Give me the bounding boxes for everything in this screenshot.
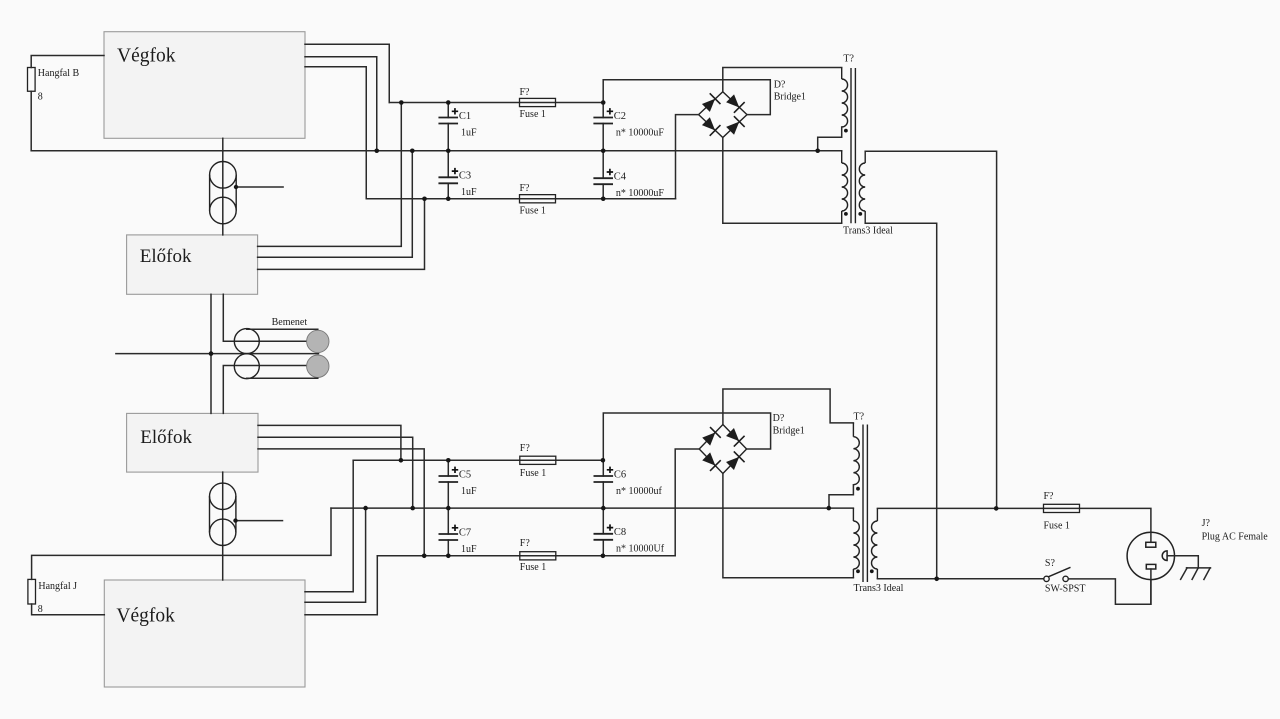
fuse F1 Fuse 1 — [520, 87, 556, 120]
fuse F2 Fuse 1 — [520, 183, 556, 216]
svg-text:C1: C1 — [459, 111, 471, 122]
svg-text:Fuse 1: Fuse 1 — [520, 562, 546, 573]
wire plug top pin stub — [1150, 532, 1152, 542]
capacitor C6 n* 10000uf — [594, 460, 663, 508]
node junction — [446, 148, 451, 153]
T2 core — [863, 425, 867, 583]
transformer T2 (T? Trans3 Ideal) — [829, 412, 904, 595]
svg-text:n* 10000uF: n* 10000uF — [616, 127, 665, 138]
wire U2 pin1 to +V rail — [258, 103, 402, 247]
wire bridge D2 - to -V rail — [675, 449, 699, 556]
wire U3 pin2 to 0V rail — [258, 437, 413, 508]
svg-text:Bemenet: Bemenet — [272, 317, 308, 328]
capacitor C7 1uF — [439, 508, 478, 556]
svg-text:F?: F? — [520, 87, 531, 98]
wire plug earth pin to ground — [1167, 556, 1198, 568]
node junction — [601, 196, 606, 201]
node junction — [410, 506, 415, 511]
T1 core — [851, 68, 855, 223]
wire speaker B bottom to 0V rail — [30, 91, 32, 151]
svg-text:F?: F? — [520, 443, 531, 454]
svg-text:Végfok: Végfok — [117, 45, 176, 66]
wire AC neutral: switch to plug — [1068, 569, 1151, 604]
wire U2 pin2 to 0V rail — [258, 151, 413, 257]
wire bridge D2 + to +V rail — [603, 413, 770, 460]
svg-text:C6: C6 — [614, 469, 626, 480]
svg-text:8: 8 — [38, 604, 43, 615]
svg-text:Plug AC Female: Plug AC Female — [1202, 531, 1269, 542]
node junction — [410, 148, 415, 153]
svg-text:T?: T? — [854, 412, 865, 423]
node junction — [827, 506, 832, 511]
wire T1 primary bottom to AC junction 2 — [865, 223, 937, 579]
plug J3 Plug AC Female — [1127, 518, 1268, 580]
T2 winding 1 (upper left) — [852, 423, 854, 437]
capacitor C5 1uF — [439, 460, 478, 508]
switch S1 SW-SPST — [1044, 558, 1086, 594]
node junction — [399, 100, 404, 105]
T1 polarity dots — [844, 129, 848, 133]
node junction — [601, 148, 606, 153]
node junction — [446, 458, 451, 463]
wire U4 0V to bottom rail — [305, 508, 366, 602]
node junction — [446, 100, 451, 105]
node junction — [422, 554, 427, 559]
wire speaker J bottom to Vegfok U4 — [32, 604, 105, 615]
capacitor C8 n* 10000Uf — [594, 508, 665, 556]
svg-text:Trans3 Ideal: Trans3 Ideal — [843, 226, 893, 237]
svg-text:n* 10000uF: n* 10000uF — [616, 188, 665, 199]
wire AC neutral: T2 secondary bottom to switch — [877, 578, 1043, 580]
T2 secondary winding (right) — [876, 508, 878, 521]
wire connector P2 tap — [236, 520, 283, 522]
node junction — [446, 196, 451, 201]
wire U1 signal in from U2 — [222, 138, 224, 235]
wire U3 pin1 to +V rail — [258, 425, 401, 460]
wire bridge D1 AC bottom to T1 winding2 — [723, 138, 842, 224]
svg-text:C2: C2 — [614, 111, 626, 122]
svg-text:Fuse 1: Fuse 1 — [520, 468, 546, 479]
wire AC line: T2 secondary to fuse F5 and plug — [877, 508, 1151, 542]
wire U4 signal in from U3 — [222, 472, 224, 580]
svg-text:1uF: 1uF — [461, 544, 477, 555]
svg-text:Trans3 Ideal: Trans3 Ideal — [854, 583, 904, 594]
svg-text:D?: D? — [774, 79, 786, 90]
node junction — [601, 458, 606, 463]
svg-text:Hangfal J: Hangfal J — [38, 581, 77, 592]
svg-text:8: 8 — [38, 92, 43, 103]
connector P1 (between U1 and U2) — [210, 162, 237, 224]
resistor/speaker Hangfal J 8 ohm — [28, 579, 36, 604]
capacitor C4 n* 10000uF — [593, 151, 664, 199]
capacitor C2 n* 10000uF — [593, 103, 664, 151]
wire connector P1 tap — [236, 186, 283, 188]
wire bridge D2 AC bottom to T2 winding2 — [723, 474, 854, 578]
wire rail +V top — [389, 102, 603, 104]
wire plug bottom pin stub — [1150, 569, 1152, 604]
svg-text:n* 10000uf: n* 10000uf — [616, 486, 663, 497]
svg-text:C8: C8 — [614, 527, 626, 538]
svg-text:Előfok: Előfok — [140, 246, 192, 267]
wire rail 0V bottom (node GND2) — [331, 507, 853, 509]
node junction — [601, 506, 606, 511]
svg-text:C7: C7 — [459, 527, 471, 538]
bridge rectifier D2 (Bridge1) — [699, 413, 805, 474]
wire rail 0V top (node GND1) — [31, 150, 842, 152]
node junction — [934, 577, 939, 582]
svg-text:1uF: 1uF — [461, 127, 477, 138]
svg-text:F?: F? — [1044, 491, 1055, 502]
ground (chassis earth) — [1181, 568, 1211, 580]
T1 winding 2 (lower left) — [841, 151, 843, 163]
capacitor C1 1uF — [438, 103, 477, 151]
node junction — [399, 458, 404, 463]
svg-text:Végfok: Végfok — [116, 605, 175, 626]
wire U4 -V to bottom rail — [305, 556, 377, 615]
svg-text:C3: C3 — [459, 171, 471, 182]
wire U2 input feed — [223, 294, 318, 341]
svg-text:Bridge1: Bridge1 — [773, 425, 805, 436]
wire input common stub (node IN-GND) — [116, 353, 319, 355]
svg-text:Fuse 1: Fuse 1 — [520, 109, 546, 120]
wire U3 input feed — [223, 366, 318, 414]
T2 winding 2 (lower left) — [852, 508, 854, 521]
wire U2 pin3 to -V rail — [258, 199, 425, 270]
block U1 Vegfok (power amp, top) — [104, 32, 305, 139]
svg-text:D?: D? — [773, 413, 785, 424]
svg-text:C5: C5 — [459, 469, 471, 480]
svg-text:Fuse 1: Fuse 1 — [520, 205, 546, 216]
node junction — [446, 554, 451, 559]
wire bridge D1 + to +V rail — [603, 80, 770, 115]
svg-text:n* 10000Uf: n* 10000Uf — [616, 544, 665, 555]
svg-text:Bridge1: Bridge1 — [774, 92, 806, 103]
svg-text:T?: T? — [843, 53, 854, 64]
wire speaker J top to 0V rail (bottom) — [32, 508, 331, 579]
node junction — [363, 506, 368, 511]
wire U4 +V to bottom rail — [305, 460, 353, 592]
wire bridge D1 - to -V rail — [676, 115, 699, 199]
svg-text:F?: F? — [520, 538, 531, 549]
node junction — [446, 506, 451, 511]
fuse F3 Fuse 1 — [520, 443, 556, 479]
T1 secondary winding (right) — [864, 151, 866, 163]
node junction — [994, 506, 999, 511]
svg-text:F?: F? — [520, 183, 531, 194]
svg-text:1uF: 1uF — [461, 486, 477, 497]
wire bridge D1 AC top to T1 winding1 — [723, 68, 842, 92]
node junction — [422, 196, 427, 201]
wire bridge D2 AC top to T2 winding1 — [723, 389, 854, 425]
block U4 Vegfok (power amp, bottom) — [104, 580, 305, 687]
transformer T1 (T? Trans3 Ideal) — [818, 53, 893, 236]
connector P2 (between U3 and U4) — [210, 483, 236, 545]
fuse F5 Fuse 1 — [1044, 491, 1080, 532]
bridge rectifier D1 (Bridge1) — [699, 79, 806, 137]
svg-text:Hangfal B: Hangfal B — [38, 68, 80, 79]
wire U2-U3 interconnect left — [210, 294, 212, 413]
node junction — [209, 351, 214, 356]
connector J1 Bemenet (RCA input upper) — [234, 329, 329, 354]
node junction — [374, 148, 379, 153]
svg-text:Előfok: Előfok — [140, 427, 192, 448]
block U3 Elofok (preamp, lower) — [127, 413, 258, 472]
fuse F4 Fuse 1 — [520, 538, 556, 573]
wire T1 primary top to AC junction — [865, 151, 996, 508]
node junction — [601, 554, 606, 559]
wire U3 pin3 to -V rail — [258, 449, 424, 556]
wire speaker B top to Vegfok U1 — [31, 56, 104, 68]
svg-text:S?: S? — [1045, 558, 1056, 569]
T2 polarity dots — [856, 487, 860, 491]
svg-text:C4: C4 — [614, 172, 627, 183]
T1 winding 1 (upper left) — [841, 68, 843, 80]
svg-text:SW-SPST: SW-SPST — [1045, 583, 1086, 594]
svg-text:J?: J? — [1202, 518, 1211, 529]
node junction — [815, 148, 820, 153]
wire rail +V bottom — [353, 459, 603, 461]
resistor/speaker Hangfal B 8 ohm — [28, 68, 36, 92]
svg-text:1uF: 1uF — [461, 187, 477, 198]
connector J2 Bemenet (RCA input lower) — [234, 354, 329, 379]
wire U1 0V out to rail — [305, 57, 377, 151]
svg-text:Fuse 1: Fuse 1 — [1044, 520, 1070, 531]
block U2 Elofok (preamp, upper) — [127, 235, 258, 294]
wire U1 +V out to rail — [305, 44, 389, 102]
node junction — [601, 100, 606, 105]
wire rail -V bottom — [377, 555, 675, 557]
capacitor C3 1uF — [438, 151, 477, 199]
wire U1 -V out and rail -V top — [305, 67, 676, 199]
